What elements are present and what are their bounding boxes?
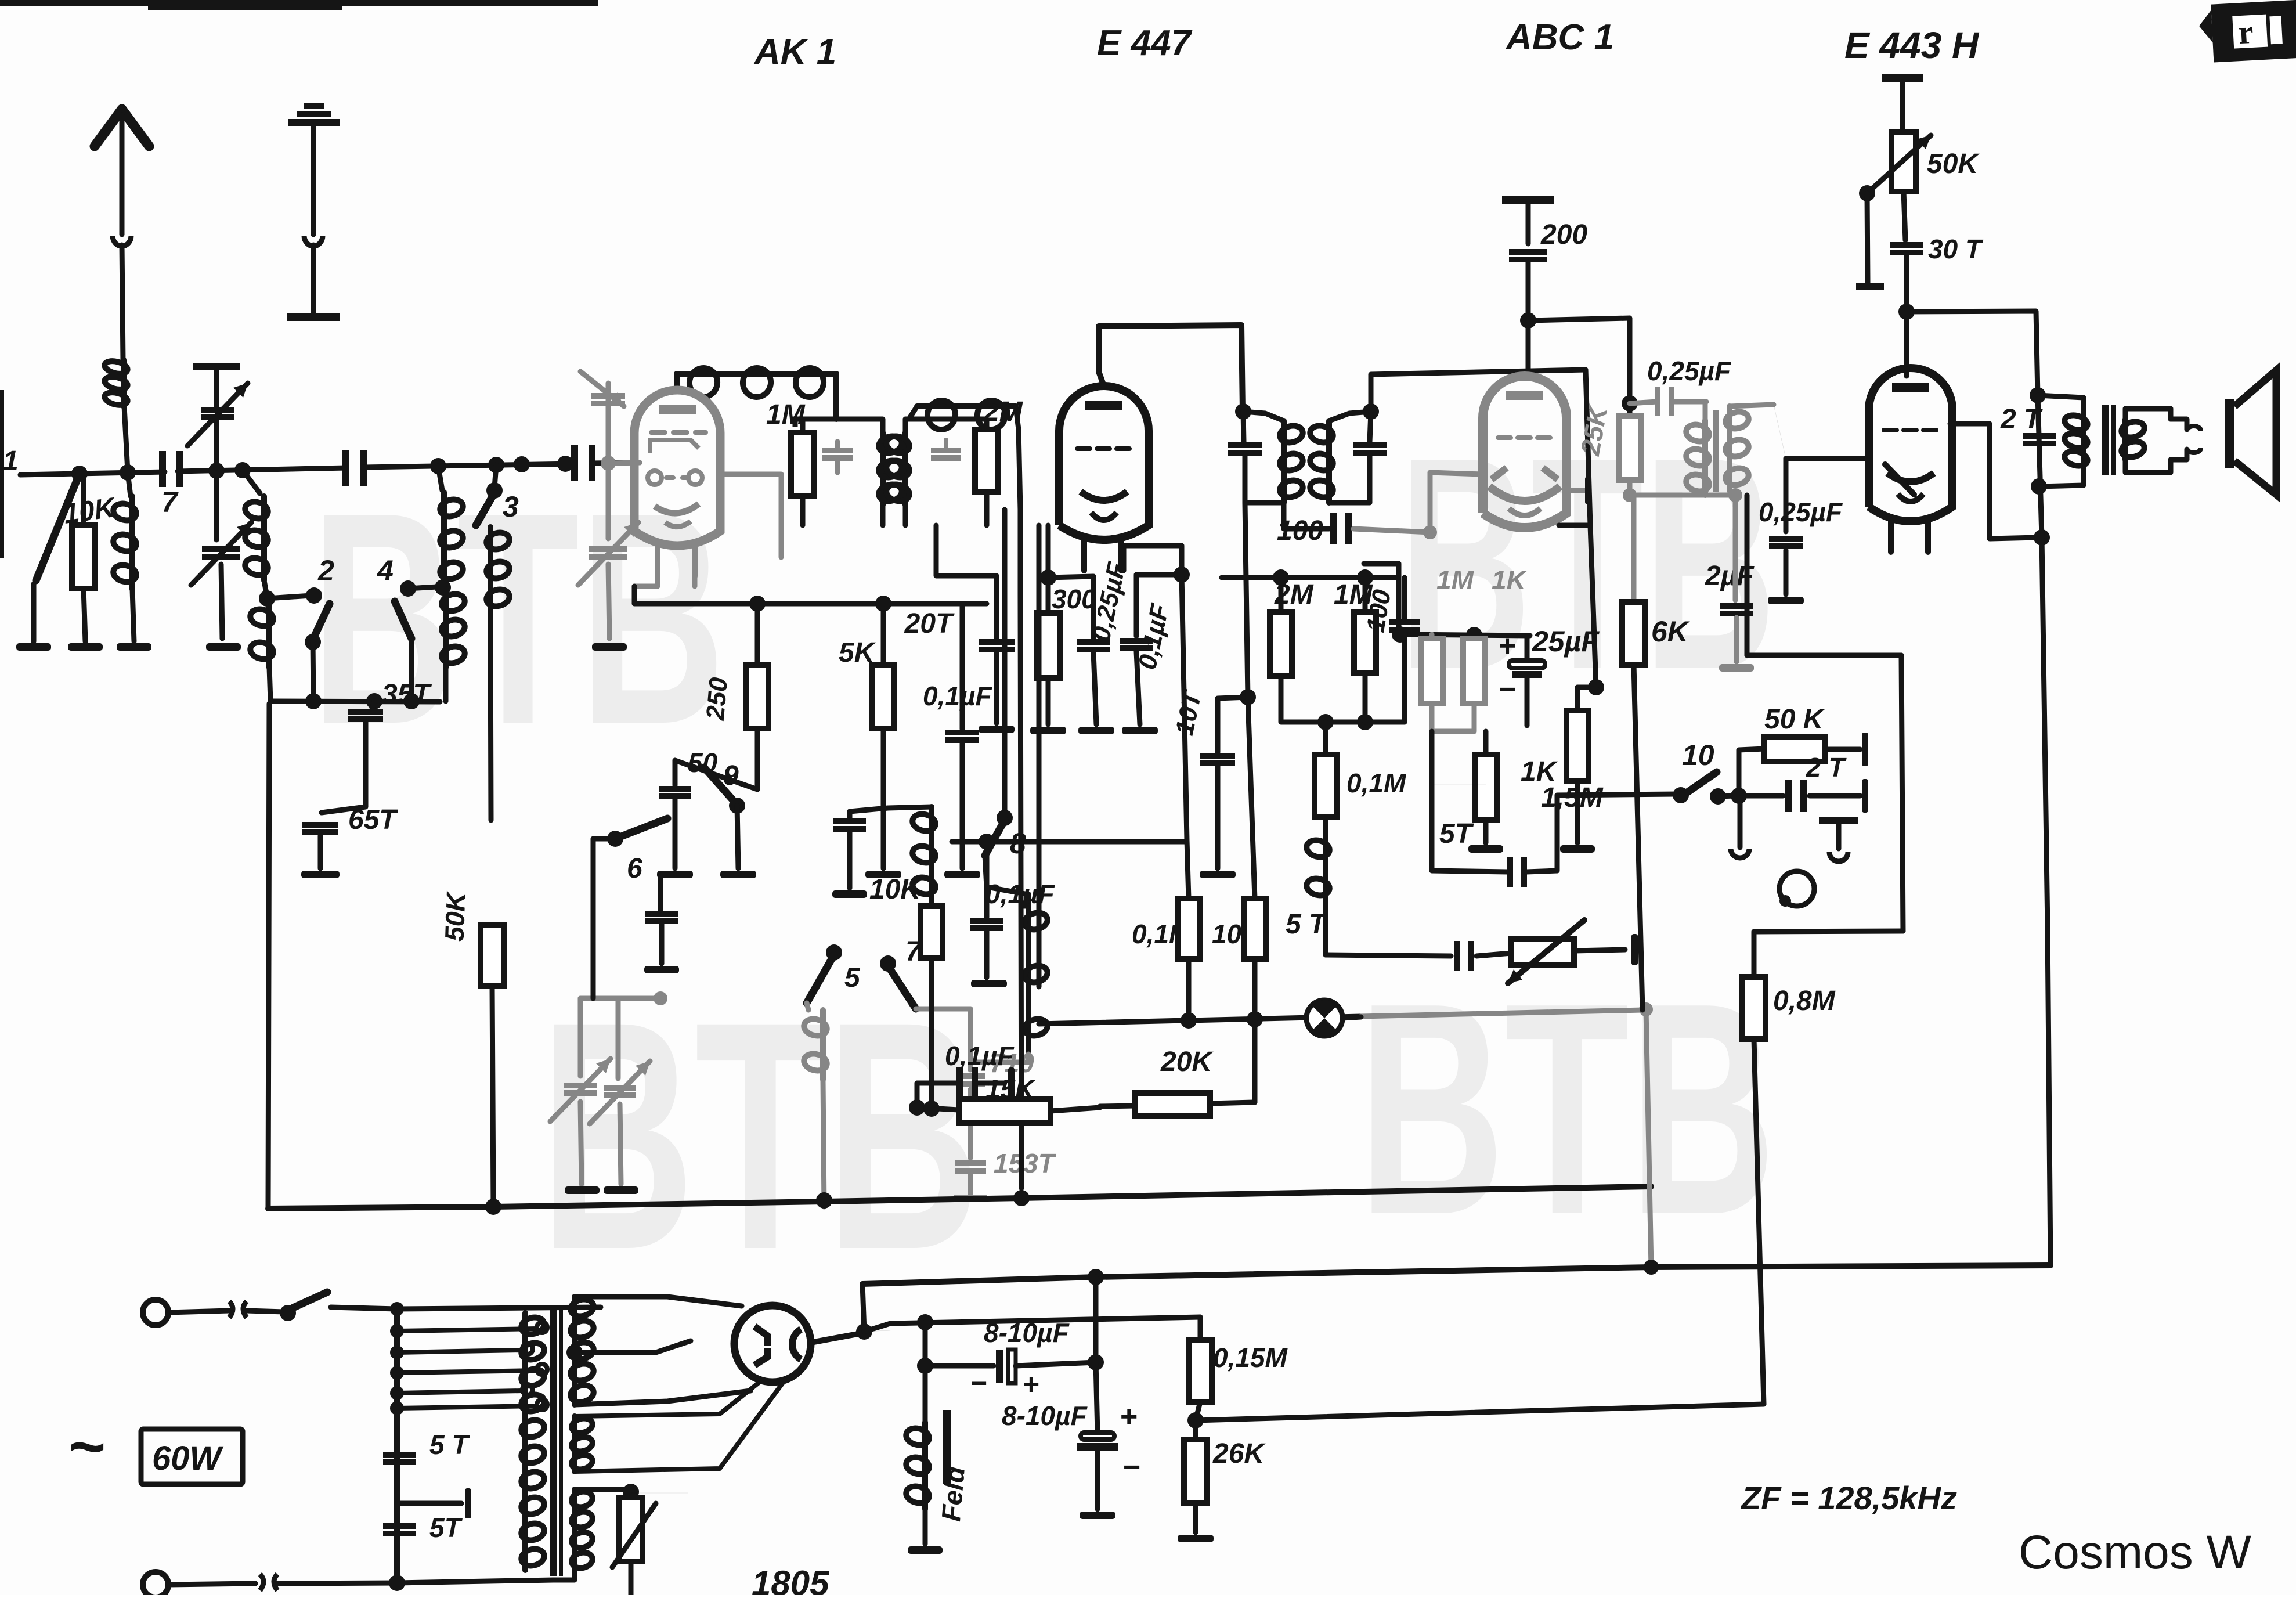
svg-text:ABC 1: ABC 1 xyxy=(1505,17,1614,57)
switch 5 xyxy=(826,944,842,961)
svg-text:−: − xyxy=(1499,673,1516,706)
ground xyxy=(1030,727,1066,734)
RF coil B upper xyxy=(438,466,442,490)
wire grid node down to tube top xyxy=(1904,312,1909,376)
speaker voice coil xyxy=(2171,419,2187,430)
primary taps xyxy=(397,1307,601,1309)
switch 7 xyxy=(880,955,896,972)
node to 1.5M xyxy=(1590,525,1596,687)
svg-text:5 T: 5 T xyxy=(429,1430,470,1460)
IF1 left unit enclosure xyxy=(795,419,836,427)
wire switch7 to 710 xyxy=(916,1007,970,1012)
ground under 5K xyxy=(865,871,901,878)
wire xyxy=(591,463,640,463)
top border line xyxy=(0,0,598,6)
left page edge mark xyxy=(0,390,4,558)
capacitor 5T mains lower xyxy=(383,1523,416,1529)
logo top right xyxy=(2198,0,2296,63)
svg-text:0,25µF: 0,25µF xyxy=(1759,497,1843,527)
barretter (heater regulator) xyxy=(619,1498,642,1561)
svg-text:0,15M: 0,15M xyxy=(1213,1343,1288,1373)
output transformer core xyxy=(2102,405,2109,475)
svg-text:5T: 5T xyxy=(1439,818,1474,849)
field coil Feld xyxy=(922,1422,928,1509)
IF1 right unit: cap (gray) and resistor 2M xyxy=(905,419,987,430)
E447 anode top wire xyxy=(1099,325,1243,412)
grid network bottom rail xyxy=(1281,676,1405,722)
RF coil A lower xyxy=(266,601,272,668)
ground xyxy=(644,966,679,973)
IF2 left tank node xyxy=(1235,403,1251,420)
svg-text:1M: 1M xyxy=(766,399,806,430)
wire xyxy=(675,760,757,789)
resistor 0.8M xyxy=(1742,977,1766,1039)
RF coil B lower xyxy=(443,589,449,668)
svg-text:3: 3 xyxy=(503,490,519,523)
capacitor 35T xyxy=(372,701,374,709)
wire grid node to output transformer xyxy=(1907,311,2038,395)
switch 6 xyxy=(607,831,623,847)
filter line xyxy=(864,1330,890,1332)
IF1 hanging primary coil xyxy=(917,403,1016,409)
svg-text:65T: 65T xyxy=(348,805,398,835)
rectifier cathode wire xyxy=(811,1333,864,1343)
ground xyxy=(1200,871,1236,878)
svg-text:60W: 60W xyxy=(152,1440,224,1477)
E443H inner diagonal xyxy=(1885,464,1914,495)
svg-text:20T: 20T xyxy=(904,608,955,639)
node xyxy=(264,580,267,597)
svg-text:1K: 1K xyxy=(1492,565,1528,595)
wire to switch 10 xyxy=(1557,794,1677,795)
mains earth tap xyxy=(397,1501,461,1506)
oscillator feedback coil xyxy=(1026,894,1031,1054)
ground xyxy=(592,643,627,651)
svg-text:+: + xyxy=(1120,1400,1138,1434)
switch 2 xyxy=(267,596,311,598)
trimmer capacitor top xyxy=(214,371,219,406)
svg-text:50 K: 50 K xyxy=(1764,704,1825,735)
ground xyxy=(1122,727,1158,734)
svg-text:ZF = 128,5kHz: ZF = 128,5kHz xyxy=(1740,1480,1957,1516)
B+ decoupling chain wire xyxy=(1245,503,1255,899)
ground xyxy=(301,871,340,878)
earth terminal xyxy=(304,103,324,109)
wire xyxy=(363,464,575,467)
grid return node line xyxy=(1364,564,1530,636)
ground xyxy=(720,871,756,878)
ground xyxy=(68,643,103,651)
svg-text:1805: 1805 xyxy=(752,1564,830,1595)
trimmer capacitor bottom xyxy=(214,474,219,540)
gang variable cap lower (gray) xyxy=(606,469,611,539)
svg-text:5 T: 5 T xyxy=(1286,909,1328,940)
svg-text:0,1µF: 0,1µF xyxy=(945,1041,1015,1071)
svg-text:0,1µF: 0,1µF xyxy=(923,681,992,711)
svg-text:0,1µF: 0,1µF xyxy=(985,879,1055,909)
svg-text:10: 10 xyxy=(1682,739,1714,771)
svg-text:BTB: BTB xyxy=(1358,940,1776,1278)
pilot lamp xyxy=(1306,1000,1342,1036)
ground xyxy=(16,643,51,651)
volume pot body xyxy=(1511,939,1574,965)
jack hook lower xyxy=(1819,817,1858,824)
svg-text:0,25µF: 0,25µF xyxy=(1647,356,1732,386)
antenna xyxy=(95,109,149,146)
output transformer primary xyxy=(2038,395,2084,413)
terminal 200 xyxy=(1502,196,1554,204)
line3 bias return xyxy=(1196,1404,1764,1420)
grid network top rail xyxy=(1222,575,1399,580)
wire 200-node to 25K column xyxy=(1528,318,1630,376)
svg-text:~: ~ xyxy=(68,1411,106,1482)
HT secondary winding xyxy=(572,1297,577,1405)
svg-text:10K: 10K xyxy=(869,874,922,905)
ground xyxy=(657,871,693,878)
mains terminal upper xyxy=(143,1300,168,1325)
gray link xyxy=(580,996,660,1001)
svg-text:250: 250 xyxy=(701,676,733,722)
ground xyxy=(832,890,867,898)
long vertical from IF1 left xyxy=(1002,510,1008,816)
svg-text:E 447: E 447 xyxy=(1097,23,1193,63)
detector line xyxy=(1039,1016,1361,1024)
gray trimmer 2 xyxy=(616,998,621,1078)
pickup symbol xyxy=(1779,871,1814,906)
series capacitor xyxy=(571,445,578,481)
grid feed wire xyxy=(634,586,987,604)
long vertical right xyxy=(2038,395,2048,929)
tube AK1 (octode, gray) xyxy=(634,390,720,546)
wire column A down to bottom rail xyxy=(268,704,269,1209)
svg-text:2: 2 xyxy=(317,554,334,587)
wire rectifier to bus2 xyxy=(862,1284,864,1332)
transformer core xyxy=(550,1307,557,1576)
wire 20K up to detector line xyxy=(1252,1020,1258,1102)
svg-text:200: 200 xyxy=(1540,219,1587,250)
IF2 left tank cap xyxy=(1228,442,1262,448)
svg-text:8-10µF: 8-10µF xyxy=(1002,1401,1088,1431)
IF2 left coil xyxy=(1281,421,1287,503)
svg-text:2 T: 2 T xyxy=(1806,752,1847,782)
oscillator mid cap xyxy=(645,911,678,917)
svg-text:−: − xyxy=(970,1367,987,1399)
potentiometer 50K (tone) xyxy=(1891,132,1916,192)
svg-text:25µF: 25µF xyxy=(1532,625,1600,658)
svg-text:7: 7 xyxy=(161,486,179,518)
svg-text:5T: 5T xyxy=(429,1513,463,1543)
gray terminal xyxy=(953,1195,988,1202)
Feld coil lead xyxy=(923,1322,928,1422)
ground xyxy=(971,980,1007,987)
ground xyxy=(206,643,241,651)
oscillator tank coil xyxy=(850,807,932,811)
ground xyxy=(944,871,980,878)
AVC choke coil xyxy=(1323,830,1328,906)
rectifier tube xyxy=(734,1305,811,1382)
junction bar under coils xyxy=(270,701,440,702)
ground xyxy=(604,1186,638,1194)
gray junction xyxy=(1639,1002,1653,1016)
antenna coupling coil xyxy=(121,360,127,406)
AK1 pin leads xyxy=(634,548,658,586)
svg-text:50K: 50K xyxy=(1927,149,1980,179)
IF3 core (gray) xyxy=(1713,410,1719,492)
wire ABC1 anode down xyxy=(1559,523,1590,528)
bias node wire xyxy=(952,839,1187,845)
ABC1 side cathode tab xyxy=(1566,488,1584,493)
E443H anode wire xyxy=(1950,424,2037,539)
wire AVC xyxy=(1037,525,1042,987)
IF2 right tank node xyxy=(1363,403,1379,420)
svg-text:1,5M: 1,5M xyxy=(1541,782,1604,813)
speaker cone xyxy=(2234,370,2276,495)
IF1 right coil xyxy=(902,432,908,505)
capacitor 5T mains upper xyxy=(383,1452,416,1458)
primary tap column xyxy=(394,1309,400,1583)
svg-text:r: r xyxy=(2237,13,2254,51)
svg-text:153T: 153T xyxy=(994,1148,1057,1178)
svg-text:8-10µF: 8-10µF xyxy=(984,1318,1070,1348)
svg-text:4: 4 xyxy=(377,554,394,587)
heater winding lower xyxy=(572,1489,577,1570)
gray vertical to bus2 xyxy=(1646,1009,1651,1267)
bus2 B+ line xyxy=(862,1265,2050,1284)
gray node under IF3 xyxy=(1630,493,1735,498)
svg-text:2 T: 2 T xyxy=(2000,404,2043,435)
RF coil C xyxy=(488,527,493,612)
node E443H grid xyxy=(1898,304,1915,320)
series capacitor xyxy=(342,450,349,486)
svg-text:Cosmos W: Cosmos W xyxy=(2019,1526,2252,1579)
svg-text:0,8M: 0,8M xyxy=(1773,986,1836,1016)
svg-text:1: 1 xyxy=(3,446,19,477)
svg-text:30 T: 30 T xyxy=(1928,234,1984,264)
long bottom wire xyxy=(268,1186,1651,1209)
wire IF3 down to jack net xyxy=(1745,495,1750,655)
bus2 right corner up xyxy=(2048,929,2050,1265)
wire xyxy=(178,468,346,471)
output transformer secondary xyxy=(2122,419,2128,460)
svg-text:6: 6 xyxy=(627,853,642,884)
mains terminal lower xyxy=(143,1572,168,1597)
RF coil A upper xyxy=(243,470,260,493)
IF1 inter-unit line down to 20T xyxy=(936,525,994,576)
IF3 left coil (gray) xyxy=(1703,402,1708,420)
ground xyxy=(1078,727,1114,734)
ground xyxy=(979,726,1015,733)
svg-text:−: − xyxy=(1123,1451,1140,1484)
screen bypass column xyxy=(1124,546,1182,575)
ground xyxy=(117,643,151,651)
ABC1 grid path (gray) xyxy=(1430,472,1482,532)
IF3 right coil (gray) xyxy=(1727,406,1732,490)
wire xyxy=(214,421,219,468)
IF1 capacitor (gray) xyxy=(822,448,853,453)
IF2 right coil xyxy=(1326,421,1332,503)
AK1 side wires (gray) xyxy=(720,474,781,557)
antenna secondary coil xyxy=(128,472,131,496)
AK1 grid wire (gray) xyxy=(634,460,640,466)
left branch to terminal xyxy=(1867,193,1868,283)
junction on long vertical xyxy=(2034,529,2050,546)
E443H grid-left wire xyxy=(1786,456,1868,461)
svg-text:AK 1: AK 1 xyxy=(753,32,836,72)
phones loop wire xyxy=(1782,795,1784,796)
svg-text:1M: 1M xyxy=(1436,565,1475,595)
svg-text:0,1M: 0,1M xyxy=(1346,768,1407,798)
label 60W box xyxy=(141,1429,243,1484)
jack hook under switch xyxy=(1738,798,1743,847)
vertical from bus2 to cap2 xyxy=(1096,1277,1098,1434)
bus to AK1 grid (gray) xyxy=(608,463,640,463)
gang trimmer upper (gray) xyxy=(606,383,611,463)
oscillator coil low (gray) xyxy=(807,1003,808,1010)
capacitor 30T xyxy=(1904,192,1905,240)
svg-text:E 443 H: E 443 H xyxy=(1844,24,1980,66)
switch 8 xyxy=(997,810,1013,826)
capacitor 65T xyxy=(302,822,338,828)
tube ABC1 (gray) xyxy=(1483,376,1566,528)
oscillator anode coil xyxy=(674,375,680,390)
svg-text:2µF: 2µF xyxy=(1705,561,1755,591)
ground xyxy=(565,1186,600,1194)
node dots on bus xyxy=(71,466,88,482)
tube E447 xyxy=(1059,386,1149,540)
svg-text:+: + xyxy=(1499,629,1516,663)
mains switch xyxy=(280,1305,296,1321)
terminal top (E443H) xyxy=(1882,74,1923,82)
capacitor 153T (gray) xyxy=(968,1090,973,1158)
svg-text:20K: 20K xyxy=(1160,1047,1214,1077)
svg-text:6K: 6K xyxy=(1651,615,1691,648)
tube E443H xyxy=(1869,368,1952,521)
oscillator tank cap xyxy=(833,818,866,824)
svg-text:35T: 35T xyxy=(382,679,432,710)
svg-text:26K: 26K xyxy=(1212,1438,1266,1469)
svg-text:Feld: Feld xyxy=(936,1464,970,1523)
bottom wire to transformer xyxy=(397,1580,553,1583)
wire main bus xyxy=(20,472,165,475)
IF2 right feed wire xyxy=(1371,370,1590,525)
wire IF3 return loop xyxy=(1747,653,1901,658)
svg-text:+: + xyxy=(1023,1368,1039,1401)
capacitor 710 (gray) xyxy=(968,1009,973,1070)
IF2 right cap xyxy=(1370,412,1371,442)
jack chain xyxy=(1739,749,1764,796)
wire from switch6 node down xyxy=(591,946,596,998)
capacitor 200 xyxy=(1509,249,1547,255)
svg-text:50K: 50K xyxy=(439,890,471,942)
IF1 left coil xyxy=(880,432,886,505)
svg-text:5: 5 xyxy=(844,962,861,993)
long vertical from IF1 right xyxy=(1020,510,1021,1188)
rectifier heater winding xyxy=(572,1416,577,1471)
svg-text:300: 300 xyxy=(1052,584,1096,614)
wire to ABC1 top cap xyxy=(1526,320,1531,376)
primary winding xyxy=(522,1313,528,1570)
switch 3 xyxy=(494,465,496,488)
capacitor 7 (series) xyxy=(159,451,166,487)
speaker magnet bar xyxy=(2225,399,2234,468)
oscillator trimmer pair (gray) xyxy=(578,998,583,1076)
